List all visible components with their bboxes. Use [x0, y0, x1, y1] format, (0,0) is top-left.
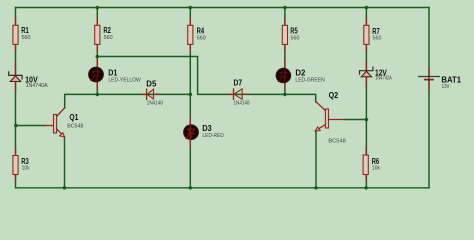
svg-text:BC548: BC548 [328, 139, 346, 145]
svg-text:R2: R2 [103, 26, 111, 35]
resistor R2 [95, 18, 100, 53]
node R2 bottom junction [96, 55, 100, 59]
wire R7/R6 column [365, 8, 367, 188]
resistor R3 [13, 148, 18, 181]
wire R2 junction to D7 rail [97, 57, 315, 103]
wire Q1 base [16, 125, 46, 127]
LED D2 LED-GREEN [276, 58, 291, 90]
svg-text:1N4148: 1N4148 [147, 100, 163, 106]
transistor Q1 BC548 [45, 108, 65, 137]
diode D5 1N4148 [142, 89, 160, 99]
LED D3 LED-RED [184, 116, 199, 148]
wire top rail [16, 7, 430, 9]
svg-text:Q1: Q1 [69, 113, 78, 122]
svg-text:D7: D7 [234, 79, 243, 88]
node R5 top [283, 6, 287, 10]
svg-text:1N4148: 1N4148 [234, 101, 250, 107]
svg-text:10k: 10k [372, 166, 380, 172]
node R2 top [96, 6, 100, 10]
svg-text:D5: D5 [146, 80, 157, 89]
wire left column [15, 8, 17, 188]
svg-text:D3: D3 [202, 124, 212, 133]
transistor Q2 BC548 [315, 102, 344, 132]
svg-text:LED-RED: LED-RED [202, 133, 224, 139]
svg-text:560: 560 [197, 35, 206, 41]
wire battery column [428, 8, 430, 188]
node Q2 base junction [365, 118, 369, 122]
wire R5/D2 column [284, 8, 286, 95]
wire Q2 base [344, 119, 366, 121]
svg-text:1N4742A: 1N4742A [375, 76, 392, 82]
battery BAT1 13V [419, 69, 440, 89]
svg-text:R6: R6 [372, 157, 380, 166]
svg-text:560: 560 [104, 35, 113, 41]
svg-text:LED-YELLOW: LED-YELLOW [108, 78, 140, 84]
svg-text:R5: R5 [290, 27, 298, 36]
svg-text:1N4740A: 1N4740A [26, 83, 49, 89]
resistor R6 [363, 147, 368, 181]
svg-text:Q2: Q2 [329, 91, 339, 100]
resistor R4 [188, 18, 193, 53]
wire R2 column [96, 8, 98, 95]
LED D1 LED-YELLOW [89, 58, 104, 90]
node Q1 base junction [14, 124, 18, 128]
svg-text:560: 560 [22, 35, 31, 41]
resistor R5 [282, 18, 287, 53]
wire R4/D3 column [189, 8, 191, 188]
resistor R1 [13, 18, 18, 53]
svg-text:D2: D2 [295, 69, 306, 78]
wire Q1 collector to mid rail and D5 rail [65, 94, 191, 108]
svg-text:10k: 10k [22, 165, 30, 171]
node D3 bottom [189, 186, 193, 190]
node Q1 emitter bottom [63, 186, 67, 190]
svg-text:R4: R4 [197, 27, 205, 36]
zener diode 12V 1N4742A [360, 61, 373, 87]
node R4 top [189, 6, 193, 10]
svg-text:D1: D1 [108, 68, 118, 77]
node R7 top [365, 6, 369, 10]
node D5/R4 junction [189, 93, 193, 97]
node D2 bottom junction [283, 93, 287, 97]
svg-text:R1: R1 [21, 26, 29, 35]
node D1 bottom junction [96, 93, 100, 97]
svg-text:560: 560 [373, 36, 382, 42]
zener diode 10V 1N4740A [9, 63, 22, 92]
wire Q2 emitter down [315, 132, 317, 188]
wire Q1 emitter down [64, 137, 66, 188]
svg-text:LED-GREEN: LED-GREEN [295, 78, 325, 84]
node R6 bottom [364, 186, 368, 190]
diode D7 1N4148 [229, 89, 248, 99]
resistor R7 [364, 18, 369, 53]
wire bottom rail [16, 187, 430, 189]
svg-text:BC548: BC548 [67, 123, 83, 129]
svg-text:13V: 13V [442, 84, 450, 90]
node Q2 emitter bottom [314, 186, 318, 190]
svg-text:560: 560 [291, 36, 300, 42]
